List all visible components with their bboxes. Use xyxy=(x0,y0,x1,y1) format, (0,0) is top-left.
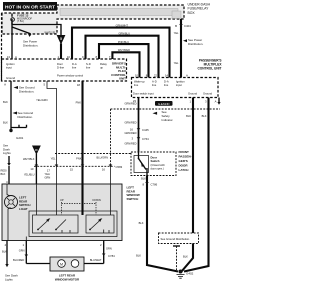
passenger's multiplex control unit box (dashed) xyxy=(132,78,219,98)
svg-text:C786: C786 xyxy=(151,182,158,186)
svg-text:BLK: BLK xyxy=(186,114,191,118)
wire triangle5 to driver's MPX xyxy=(60,44,62,60)
svg-text:Switch: Switch xyxy=(151,159,160,163)
svg-text:17: 17 xyxy=(47,169,51,173)
heavy wire driver's pin 18 to switch xyxy=(76,81,83,184)
svg-text:HOT IN ON OR START: HOT IN ON OR START xyxy=(5,4,55,9)
svg-text:GRN/BLU: GRN/BLU xyxy=(118,32,130,36)
banner HOT IN ON OR START xyxy=(3,2,57,11)
svg-text:Lights: Lights xyxy=(5,277,13,281)
svg-text:PNK: PNK xyxy=(76,157,82,161)
mechanical linkage dashes xyxy=(62,202,97,215)
svg-text:Wake-up: Wake-up xyxy=(134,80,145,84)
passenger's MPX interior labels xyxy=(133,80,212,96)
svg-text:S-D: S-D xyxy=(86,62,91,66)
driver's MPX bottom pin numbers xyxy=(4,82,80,87)
dashed ground-distribution wire to G402 xyxy=(173,246,188,270)
bus wire w4 xyxy=(112,48,139,78)
svg-text:G-E/GND: G-E/GND xyxy=(158,102,170,106)
svg-text:A-D: A-D xyxy=(152,80,157,84)
svg-text:line: line xyxy=(152,83,157,87)
see ground distribution dashed box xyxy=(159,233,199,244)
svg-text:G201: G201 xyxy=(16,136,24,140)
svg-text:22: 22 xyxy=(154,74,158,78)
connector C786 xyxy=(142,182,157,186)
svg-text:Ignition: Ignition xyxy=(176,80,185,84)
svg-text:FRONT: FRONT xyxy=(179,150,189,154)
svg-text:BLU/WHT: BLU/WHT xyxy=(90,258,102,262)
svg-text:PNK/BLU: PNK/BLU xyxy=(118,40,129,44)
svg-text:Distribution.: Distribution. xyxy=(188,42,203,46)
svg-text:A: A xyxy=(15,55,17,59)
svg-text:13: 13 xyxy=(7,55,11,59)
svg-text:door open.): door open.) xyxy=(151,167,164,171)
passenger's MPX top pin numbers xyxy=(135,74,188,78)
svg-text:G402: G402 xyxy=(186,272,194,276)
svg-text:YEL/BLU: YEL/BLU xyxy=(24,173,35,177)
label UNDER-DASH FUSE/RELAY BOX xyxy=(188,2,211,14)
bus wire w1 driver pin to passenger pin 14 xyxy=(72,23,170,77)
connector C764 xyxy=(131,137,149,141)
driver's MPX interior labels xyxy=(6,62,108,80)
fuse F13 xyxy=(11,14,15,25)
svg-text:GRN: GRN xyxy=(106,247,112,251)
see ground distribution text (lower) xyxy=(13,111,34,119)
left rear window switch box (gray) xyxy=(2,184,122,241)
svg-text:Power window control: Power window control xyxy=(57,74,84,78)
connector triangle 5 xyxy=(44,31,64,44)
svg-text:A: A xyxy=(215,100,217,104)
svg-text:LIGHT: LIGHT xyxy=(19,207,28,211)
svg-text:BOX: BOX xyxy=(188,11,196,15)
label LEFT REAR WINDOW SWITCH xyxy=(127,186,140,201)
svg-text:Ignition: Ignition xyxy=(6,62,15,66)
svg-text:GRN/RED: GRN/RED xyxy=(125,121,137,125)
driver's MPX top pin numbers xyxy=(7,55,111,59)
bus wire w2 xyxy=(86,32,159,78)
svg-text:C583: C583 xyxy=(116,165,123,169)
svg-text:CONTROL UNIT: CONTROL UNIT xyxy=(197,67,221,71)
svg-text:10: 10 xyxy=(30,167,34,171)
svg-text:C764: C764 xyxy=(142,137,149,141)
wire fuse to driver's MPX pin 13 xyxy=(11,19,13,59)
svg-text:B: B xyxy=(175,24,177,28)
switch mechanism left contact rect xyxy=(33,215,79,233)
svg-text:YEL: YEL xyxy=(51,157,56,161)
fuse value labels xyxy=(17,14,32,24)
GRN/RED wire passenger pin 23 to door switch xyxy=(125,98,139,153)
svg-text:(Closed with: (Closed with xyxy=(151,163,166,167)
svg-text:BLK: BLK xyxy=(1,172,6,176)
svg-text:UP: UP xyxy=(60,198,64,202)
ground wire B from passenger's MPX to G402 xyxy=(182,98,194,272)
door switch dashed box xyxy=(131,152,176,176)
svg-text:line: line xyxy=(134,83,139,87)
svg-text:GRN/WHT: GRN/WHT xyxy=(116,23,129,27)
svg-text:YEL: YEL xyxy=(174,31,179,35)
svg-text:Ground: Ground xyxy=(203,92,212,96)
svg-text:Distribution.: Distribution. xyxy=(18,115,33,119)
svg-text:Distribution.: Distribution. xyxy=(19,89,34,93)
svg-text:YEL/GRN: YEL/GRN xyxy=(36,98,48,102)
svg-text:M: M xyxy=(60,262,63,266)
svg-text:Indicator.: Indicator. xyxy=(162,118,174,122)
svg-text:BLK: BLK xyxy=(202,114,207,118)
svg-text:15: 15 xyxy=(70,168,74,172)
svg-text:SWITCH: SWITCH xyxy=(127,197,139,201)
svg-text:WHT/YEL: WHT/YEL xyxy=(44,31,56,35)
svg-text:BLK: BLK xyxy=(141,177,146,181)
BLK wire from door switch to G402 xyxy=(136,176,178,272)
motor loop bottom wire xyxy=(26,263,103,265)
left rear window motor box xyxy=(50,257,84,271)
driver's multiplex control unit box (dashed) xyxy=(2,13,127,81)
svg-text:BLK: BLK xyxy=(3,100,8,104)
svg-text:PASSEN-: PASSEN- xyxy=(179,155,192,159)
svg-text:line: line xyxy=(72,66,77,70)
svg-text:BLK: BLK xyxy=(136,254,141,258)
svg-text:Ground: Ground xyxy=(188,92,197,96)
connector C445 xyxy=(130,128,149,132)
svg-text:input: input xyxy=(6,66,12,70)
under-dash fuse/relay box (dashed outline, gray fill) xyxy=(2,5,184,34)
ground wire C from passenger's MPX to G402 xyxy=(184,98,209,272)
svg-text:10: 10 xyxy=(67,55,71,59)
svg-text:WHT/RED: WHT/RED xyxy=(118,48,130,52)
svg-text:C445: C445 xyxy=(142,128,149,132)
ground G201 xyxy=(9,125,26,140)
connector C404 pin B and YEL wire xyxy=(174,19,192,78)
motor loop left wire pin 1 xyxy=(13,241,28,264)
pin 16 label xyxy=(51,157,106,172)
svg-text:18: 18 xyxy=(77,83,81,87)
svg-text:BLK: BLK xyxy=(139,221,144,225)
passenger's MPX bottom pin numbers xyxy=(189,100,216,104)
svg-text:D-line: D-line xyxy=(57,66,65,70)
door switch symbol xyxy=(134,152,149,176)
svg-text:PNK: PNK xyxy=(76,101,82,105)
svg-text:up: up xyxy=(100,67,103,70)
svg-text:14: 14 xyxy=(165,74,169,78)
svg-text:Door switch input: Door switch input xyxy=(133,92,154,96)
svg-text:GRN/RED: GRN/RED xyxy=(125,142,137,146)
svg-text:A: A xyxy=(186,74,188,78)
label LEFT REAR SWITCH LIGHT xyxy=(19,196,30,211)
svg-text:BLU/GRN: BLU/GRN xyxy=(96,156,108,160)
bus wire w3 xyxy=(99,40,149,78)
internal bus bar of fuse/relay box xyxy=(60,9,181,19)
svg-text:Distribution.: Distribution. xyxy=(23,43,38,47)
svg-text:Lights: Lights xyxy=(3,151,11,155)
switch position labels UP DOWN xyxy=(60,198,101,202)
svg-text:D-A: D-A xyxy=(72,62,77,66)
svg-text:GRN: GRN xyxy=(19,249,25,253)
svg-text:DOOR: DOOR xyxy=(179,164,189,168)
svg-text:C404: C404 xyxy=(184,24,191,28)
pin 15 label xyxy=(70,168,74,172)
see dash lights wire (top left of switch) xyxy=(1,144,12,185)
svg-text:See Ground Distribution.: See Ground Distribution. xyxy=(161,237,191,241)
door switch labels xyxy=(151,156,166,171)
ground wire from driver's MPX pin A to G201 xyxy=(3,81,11,132)
arrow See Safety Indicator xyxy=(153,110,174,122)
svg-text:A: A xyxy=(4,82,6,86)
svg-text:DOWN: DOWN xyxy=(93,198,101,202)
motor label xyxy=(55,274,80,282)
svg-text:BLK: BLK xyxy=(3,121,8,125)
svg-text:GRN: GRN xyxy=(45,175,51,179)
wire fuse to connector triangle 5 xyxy=(12,25,61,36)
svg-text:16: 16 xyxy=(102,168,106,172)
svg-text:line: line xyxy=(164,83,169,87)
branch arrow to See Power Distribution xyxy=(12,27,38,47)
svg-text:UNIT: UNIT xyxy=(119,77,126,81)
svg-text:WHT/BLK: WHT/BLK xyxy=(23,157,35,161)
label FRONT PASSENGER'S DOOR LATCH xyxy=(179,150,192,172)
svg-text:GER'S: GER'S xyxy=(179,159,188,163)
svg-text:16: 16 xyxy=(130,128,134,132)
svg-text:WINDOW MOTOR: WINDOW MOTOR xyxy=(55,277,80,281)
switch light bulb xyxy=(5,184,18,241)
switch mechanism outer rect xyxy=(29,211,117,237)
svg-text:C784: C784 xyxy=(108,254,115,258)
arrow See Power Distribution (right) xyxy=(183,38,203,46)
connector triangle D wire xyxy=(23,146,40,184)
svg-text:5: 5 xyxy=(60,37,62,41)
svg-text:Ground: Ground xyxy=(6,76,15,80)
wire driver's pin 5 to switch (thin) xyxy=(36,81,56,184)
ground G402 xyxy=(177,270,194,279)
driver's MPX title xyxy=(111,62,126,81)
pin A continuation arrow xyxy=(217,98,220,105)
svg-text:D-A: D-A xyxy=(164,80,169,84)
switch internal wires from pins xyxy=(26,184,110,241)
svg-text:line: line xyxy=(86,66,91,70)
pin 17 and YEL/GRN label xyxy=(45,169,51,180)
black tag G-E/GND xyxy=(155,101,173,106)
svg-text:BLK: BLK xyxy=(2,250,7,254)
svg-text:input: input xyxy=(176,83,182,87)
svg-text:Door: Door xyxy=(57,62,63,66)
motor loop right wire pin 2 xyxy=(90,241,115,264)
svg-text:BLU/RED: BLU/RED xyxy=(13,258,24,262)
svg-text:LATCH: LATCH xyxy=(179,168,189,172)
passenger's MPX title xyxy=(197,59,222,71)
dashed wire from tag to left rear window switch xyxy=(96,109,220,184)
svg-text:10: 10 xyxy=(135,74,139,78)
svg-text:BLK: BLK xyxy=(183,255,188,259)
svg-text:GRN/RED: GRN/RED xyxy=(125,102,137,106)
svg-text:(7.5A): (7.5A) xyxy=(17,20,24,23)
switch box bottom pin 4 wire to dash lights xyxy=(2,241,18,282)
switch mechanism right contact rect xyxy=(86,215,114,233)
svg-text:Relay: Relay xyxy=(100,62,108,66)
see ground distribution arrow (upper) xyxy=(14,86,35,94)
svg-text:YEL: YEL xyxy=(174,61,179,65)
connector C583 dashed joint line xyxy=(34,154,131,170)
